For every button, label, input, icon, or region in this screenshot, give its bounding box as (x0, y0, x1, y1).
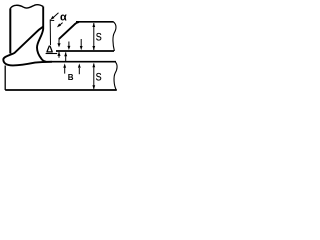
upper right plate: top surface (76, 21, 114, 23)
dimension B: up arrow with stem crossing the gap (65, 52, 67, 61)
angle alpha dimension: leader from upper right with arrowhead onto ref line top (52, 13, 58, 19)
dimension S upper: stem with outward arrows (93, 23, 95, 50)
gap outside dimension: lower arrow pointing up at lower plate top (78, 68, 80, 74)
upper right plate: wavy right break edge (113, 22, 116, 51)
left vertical plate: left edge (9, 9, 11, 54)
dimension delta: lower arrow (up) below plate bottom (58, 52, 60, 58)
gap outside dimension: upper arrow pointing down at plate bottom (80, 39, 82, 47)
left vertical plate: wavy top break edge (10, 5, 43, 9)
svg-text:S: S (96, 31, 102, 43)
angle alpha dimension: arrow under alpha pointing down-left to bevel (59, 23, 62, 26)
svg-text:S: S (96, 72, 102, 84)
dimension delta: stem below bevel end with down arrowhead (58, 38, 60, 44)
upper right plate: bottom surface (56, 50, 114, 52)
dimension B: down arrow above upper plate bottom (68, 42, 70, 47)
lower plate: bottom surface (5, 89, 117, 91)
lower plate: wavy right break edge (114, 62, 117, 90)
lower plate: left edge (4, 66, 6, 91)
angle alpha dimension: short bar at ref line top (50, 19, 54, 21)
upper right plate: bevel face (angle alpha) (59, 22, 79, 39)
svg-text:α: α (60, 12, 67, 24)
weld fusion line diagonal and left bulge with foot (3, 27, 52, 66)
dimension S lower: stem with outward arrows (93, 64, 95, 89)
svg-text:B: B (68, 73, 74, 82)
left plate right edge curving into concave fillet weld face (37, 7, 46, 62)
lower plate: top surface (44, 61, 116, 63)
angle alpha reference vertical line (49, 20, 51, 46)
B leader arrow below lower plate top (64, 67, 66, 74)
